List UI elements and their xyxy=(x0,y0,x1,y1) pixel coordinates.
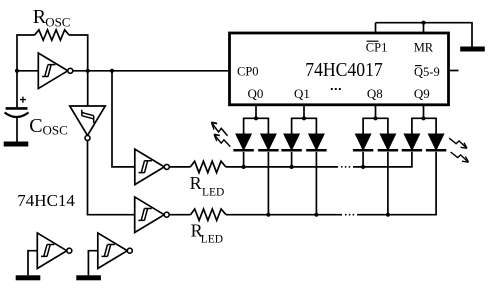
wire: D2 cathode to lower rail xyxy=(267,152,269,215)
ground (CP1/MR) xyxy=(460,47,485,52)
node: D1 junction on upper rail xyxy=(242,165,246,169)
wire: junction down to U1B input xyxy=(87,71,89,106)
wire: U1D output to R_LED2 xyxy=(170,214,191,216)
node: D3 junction on upper rail xyxy=(290,165,294,169)
LED D7 (Q9 left) xyxy=(402,134,422,152)
wire: junction x112 down and right to U1C input xyxy=(112,71,135,167)
wire: U1A output to CP0 xyxy=(73,70,229,72)
wire: CP1 pin up xyxy=(375,23,377,33)
node: D2 junction on lower rail xyxy=(266,213,270,217)
svg-text:LED: LED xyxy=(202,186,224,198)
wire: input to U1A xyxy=(17,70,38,72)
wire: D3 cathode to upper rail xyxy=(291,152,293,167)
wire: R_OSC right lead down to oscillator output node xyxy=(69,35,88,71)
wire: CP1/MR net to ground xyxy=(376,23,473,47)
wire: node down to capacitor xyxy=(16,71,18,107)
wire: lower anode rail left section xyxy=(226,214,342,216)
light arrows right of D8 xyxy=(449,138,467,148)
op-amp U1A schmitt inverter (oscillator) xyxy=(38,53,73,89)
LED D4 (Q1 right) xyxy=(306,134,326,152)
LED D5 (Q8 left) xyxy=(353,134,373,152)
wire: D5 cathode to upper rail xyxy=(362,152,364,167)
wire: Q0 split to LED pair xyxy=(244,118,269,134)
svg-text:CP1: CP1 xyxy=(366,40,388,54)
node: oscillator input junction xyxy=(15,69,19,73)
wire: Q1 pin down xyxy=(303,105,305,118)
svg-text:R: R xyxy=(190,173,202,193)
wire: Q0 pin down xyxy=(255,105,257,118)
wire: capacitor to ground xyxy=(16,118,18,142)
wire: R_OSC left lead down to oscillator input node xyxy=(17,35,35,71)
wire: Q9 pin down xyxy=(423,105,425,118)
IC U2 74HC4017 body xyxy=(230,33,449,105)
node: Q1 split junction xyxy=(302,116,306,120)
wire: D4 cathode to lower rail xyxy=(315,152,317,215)
node: Q8 split junction xyxy=(373,116,377,120)
svg-text:Q0: Q0 xyxy=(247,86,263,101)
light arrows left of D1 xyxy=(211,122,227,136)
svg-text:Q1: Q1 xyxy=(294,86,310,101)
wire: upper anode rail left section xyxy=(226,166,338,168)
wire: D1 cathode to upper rail xyxy=(243,152,245,167)
wire: Q9 split to LED pair xyxy=(412,118,436,134)
svg-text:74HC14: 74HC14 xyxy=(17,191,75,210)
svg-text:Q9: Q9 xyxy=(414,86,430,101)
wire: U1C output to R_LED1 xyxy=(170,166,191,168)
resistor R_OSC xyxy=(35,30,69,40)
svg-text:LED: LED xyxy=(201,233,223,245)
LED D6 (Q8 right) xyxy=(378,134,398,152)
wire: Q8 split to LED pair xyxy=(363,118,388,134)
resistor R_LED2 xyxy=(191,209,227,220)
wire: lower anode rail right section up to LED Q9R xyxy=(357,152,436,215)
svg-text:OSC: OSC xyxy=(43,123,68,138)
node: Q0 split junction xyxy=(254,116,258,120)
resistor R_LED1 xyxy=(190,161,225,172)
svg-text:MR: MR xyxy=(414,40,434,54)
wire: Q5-9 stub xyxy=(449,70,459,72)
wire: U1F input to ground xyxy=(88,251,97,276)
svg-text:C: C xyxy=(29,115,42,137)
svg-text:Q8: Q8 xyxy=(367,86,383,101)
ground (U1F input) xyxy=(76,275,101,280)
LED D3 (Q1 left) xyxy=(281,134,301,152)
ground (U1E input) xyxy=(16,275,41,280)
LED D2 (Q0 right) xyxy=(258,134,278,152)
wire: MR pin up xyxy=(423,23,425,33)
node: D5 junction on upper rail xyxy=(361,165,365,169)
op-amp U1F unused schmitt inverter xyxy=(98,233,133,269)
wire: D6 cathode to lower rail xyxy=(387,152,389,215)
node: junction at x112 xyxy=(110,69,114,73)
transistor U1B schmitt inverter (down-pointing) xyxy=(70,106,106,141)
node: rail break dots lower xyxy=(345,214,347,216)
node: Q9 split junction xyxy=(421,116,425,120)
LED D8 (Q9 right) xyxy=(426,134,446,152)
capacitor C_OSC xyxy=(6,107,28,110)
op-amp U1D schmitt inverter (lower LED driver) xyxy=(135,197,170,233)
LED D1 (Q0 left) xyxy=(233,134,253,152)
wire: Q1 split to LED pair xyxy=(292,118,317,134)
svg-text:OSC: OSC xyxy=(45,14,70,29)
label ellipsis inside IC xyxy=(331,88,333,90)
wire: U1E input to ground xyxy=(28,251,37,276)
op-amp U1C schmitt inverter (upper LED driver) xyxy=(135,149,170,185)
op-amp U1E unused schmitt inverter xyxy=(37,233,72,269)
capacitor C_OSC plus sign xyxy=(20,97,26,103)
node: D4 junction on lower rail xyxy=(314,213,318,217)
wire: Q8 pin down xyxy=(375,105,377,118)
svg-text:74HC4017: 74HC4017 xyxy=(305,59,383,81)
ground (C_OSC) xyxy=(4,142,29,147)
svg-text:Q5-9: Q5-9 xyxy=(414,65,440,79)
node: junction at x88 xyxy=(86,69,90,73)
wire: upper anode rail right section up to LED Q9L xyxy=(353,152,412,167)
node: rail break dots upper xyxy=(341,166,343,168)
node: D6 junction on lower rail xyxy=(386,213,390,217)
node: junction above MR xyxy=(421,21,425,25)
wire: U1B output down and right to U1D input xyxy=(88,141,135,215)
svg-text:CP0: CP0 xyxy=(237,64,259,78)
